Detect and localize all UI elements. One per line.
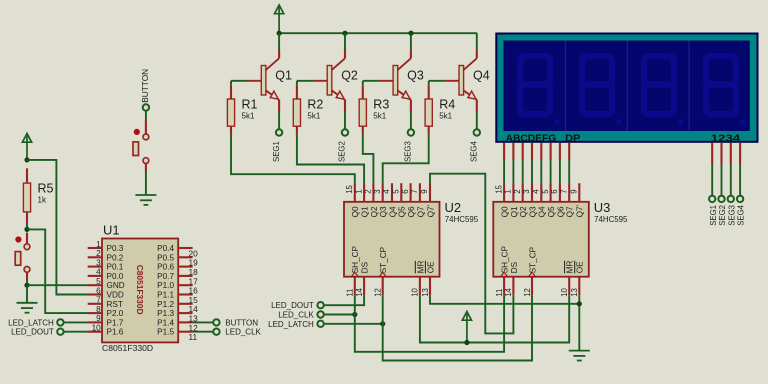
U1 pin 15 (P1.1) [178,293,192,295]
wire display to U3 [550,160,552,183]
svg-text:Q7': Q7' [576,204,585,217]
IC U1 C8051F330D body [102,239,178,343]
junction rail/Q3 [408,31,413,36]
svg-text:LED_CLK: LED_CLK [278,311,314,320]
svg-text:5k1: 5k1 [439,112,452,121]
svg-text:C8051F330D: C8051F330D [135,265,145,315]
svg-text:GND: GND [107,281,125,290]
resistor R2 [293,99,300,126]
svg-text:5k1: 5k1 [242,112,255,121]
display digit 2 decimal point [616,120,621,125]
terminal SEG2 (transistor) [342,129,348,135]
svg-text:10: 10 [411,287,420,296]
terminal SEG4 (display) [737,196,743,202]
U1 pin 1 (P0.3) [88,247,102,249]
junction LED_CLK [352,312,357,317]
U1 pin 12 (P1.4) [178,321,192,323]
display digit pin 2 [720,143,722,164]
terminal SEG3 (transistor) [408,129,414,135]
svg-text:Q1: Q1 [275,69,292,83]
svg-text:Q2: Q2 [370,206,379,217]
wire display to U3 [503,160,505,183]
U2 pin 12 (ST_CP) [382,277,384,296]
svg-text:6: 6 [550,189,559,193]
svg-text:U1: U1 [103,223,120,238]
resistor R5 pin stubs [26,168,28,183]
svg-text:9: 9 [570,189,579,193]
svg-text:P1.0: P1.0 [157,281,174,290]
wire LED_CLK to U3.SH_CP [355,295,504,352]
wire R4 to U2.Q3 [383,135,429,184]
svg-text:P0.5: P0.5 [157,253,174,262]
svg-text:DS: DS [361,261,370,273]
svg-text:P1.5: P1.5 [157,328,174,337]
U1 pin 4 (P0.0) [88,275,102,277]
IC U2 74HC595 body [344,202,440,277]
svg-text:5: 5 [541,189,550,194]
U1 pin 13 (P1.3) [178,312,192,314]
U1 pin 18 (P0.6) [178,266,192,268]
display segment pin A [503,143,505,160]
svg-text:SEG2: SEG2 [338,141,347,162]
svg-text:P1.7: P1.7 [107,318,124,327]
wire U2.Q7' to U3.DS [430,174,513,334]
svg-text:12: 12 [374,288,383,297]
wire Q3 emitter to SEG3 [410,112,412,130]
wire [193,321,214,323]
svg-text:SH_CP: SH_CP [351,245,360,273]
display digit 3 decimal point [678,120,683,125]
svg-text:Q2: Q2 [519,206,528,217]
wire R3 to U2.Q2 [363,135,374,184]
svg-text:P1.3: P1.3 [157,309,174,318]
U2 pin 6 (Q6) [410,183,412,202]
U1 pin 6 (VDD) [88,293,102,295]
IC U3 74HC595 body [493,202,589,277]
wire [296,81,298,86]
U3 pin 15 (Q0) [503,183,505,202]
wire LED_LATCH [323,323,382,325]
svg-text:4: 4 [532,189,541,194]
display segment pin E [540,143,542,160]
wire LED_LATCH to U3.ST_CP [383,295,532,360]
svg-text:10: 10 [92,323,102,333]
display digit 1 decimal point [554,120,559,125]
svg-text:DP: DP [565,133,581,144]
U1 pin 10 (P1.6) [88,331,102,333]
terminal SEG2 (display) [718,196,724,202]
svg-text:15: 15 [494,184,503,193]
svg-text:14: 14 [504,287,513,296]
U3 pin 1 (Q1) [512,183,514,202]
push button (left, to P2.0) [15,236,21,242]
terminal LED_LATCH (mid) [317,321,323,327]
svg-text:3: 3 [373,189,382,193]
svg-text:Q7': Q7' [426,204,435,217]
svg-text:P0.3: P0.3 [107,244,124,253]
ground (top button) [135,195,156,205]
terminal LED_CLK (right of U1) [213,329,219,335]
U2 pin 15 (Q0) [354,183,356,202]
svg-text:2: 2 [364,189,373,193]
display digit 2 segments [582,56,612,114]
svg-text:Q5: Q5 [398,206,407,217]
svg-text:LED_DOUT: LED_DOUT [271,301,314,310]
wire [26,285,28,303]
wire Q4 to rail [476,33,478,50]
U3 pin 5 (Q5) [550,183,552,202]
svg-text:R2: R2 [307,98,323,112]
U2 pin 3 (Q3) [382,183,384,202]
terminal SEG1 (transistor) [276,129,282,135]
display digit pin 4 [739,143,741,164]
terminal SEG4 (transistor) [474,129,480,135]
wire [63,321,88,323]
wire [428,81,430,86]
power symbol VCC (rail) [275,5,284,33]
U2 pin 9 (Q7') [429,183,431,202]
svg-text:15: 15 [345,184,354,193]
svg-text:Q7: Q7 [416,206,425,217]
ground (left button) [17,303,38,313]
svg-text:3: 3 [522,189,531,193]
svg-text:OE: OE [576,261,585,273]
svg-text:P0.0: P0.0 [107,272,124,281]
svg-text:Q3: Q3 [379,206,388,217]
svg-text:P0.4: P0.4 [157,244,174,253]
U3 pin 10 (MR) [568,277,570,296]
wire R1 to U2.Q0 [231,135,355,184]
push button (BUTTON net) [134,129,140,135]
U1 pin 16 (P1.0) [178,284,192,286]
svg-text:SEG3: SEG3 [404,141,413,162]
U1 pin 17 (P0.7) [178,275,192,277]
transistor Q4 [459,66,464,96]
svg-text:P1.2: P1.2 [157,300,174,309]
terminal LED_CLK (mid) [317,311,323,317]
U3 pin 7 (Q7) [568,183,570,202]
svg-text:Q4: Q4 [538,206,547,217]
svg-text:11: 11 [189,332,198,342]
display digit 4 decimal point [740,120,745,125]
terminal SEG1 (display) [709,196,715,202]
svg-text:P1.6: P1.6 [107,328,124,337]
wire [362,81,364,86]
junction rail/Q2 [342,31,347,36]
wire node to P2.0 [27,229,88,313]
wire display to U3 [568,160,570,183]
svg-text:11: 11 [495,289,504,297]
wire digit 4 to SEG4 [739,164,741,196]
svg-text:Q6: Q6 [407,206,416,217]
U1 pin 5 (GND) [88,284,102,286]
svg-text:1k: 1k [38,196,47,205]
U2 pin 13 (OE) [429,277,431,296]
svg-text:Q1: Q1 [361,206,370,217]
svg-text:MR: MR [416,260,425,273]
U1 pin 2 (P0.2) [88,256,102,258]
wire [230,81,232,86]
terminal BUTTON (right of U1) [213,319,219,325]
svg-text:C8051F330D: C8051F330D [102,343,153,353]
svg-text:LED_CLK: LED_CLK [225,328,261,337]
U1 pin 19 (P0.5) [178,256,192,258]
wire [26,168,28,170]
display digit divider [688,41,690,132]
wire to U2.SH_CP [354,295,356,314]
wire [63,331,88,333]
wire R4 to Q4 base [429,80,445,82]
svg-text:Q2: Q2 [341,69,358,83]
svg-text:BUTTON: BUTTON [225,318,258,327]
svg-text:P0.7: P0.7 [157,272,174,281]
U2 pin 4 (Q4) [391,183,393,202]
display segment pin B [512,143,514,160]
svg-text:R4: R4 [439,98,455,112]
display digit 4 segments [706,56,736,114]
svg-text:P1.4: P1.4 [157,318,174,327]
U2 pin 2 (Q2) [372,183,374,202]
U3 pin 3 (Q3) [531,183,533,202]
terminal LED_DOUT (mid) [317,302,323,308]
resistor R2 pin stubs [296,85,298,99]
U3 pin 6 (Q6) [559,183,561,202]
U3 pin 2 (Q2) [522,183,524,202]
svg-text:BUTTON: BUTTON [140,69,150,103]
svg-text:RST: RST [107,300,123,309]
wire Q1 emitter to SEG1 [278,112,280,130]
wire R3 to Q3 base [363,80,379,82]
svg-text:5k1: 5k1 [373,112,386,121]
U1 pin 9 (P1.7) [88,321,102,323]
svg-text:1234: 1234 [711,133,741,144]
resistor R4 [425,99,432,126]
svg-text:SEG4: SEG4 [470,141,479,162]
U3 pin 9 (Q7') [578,183,580,202]
U2 pin 10 (MR) [419,277,421,296]
svg-text:Q4: Q4 [388,206,397,217]
transistor Q2 [327,66,332,96]
svg-text:11: 11 [346,289,355,297]
display digit 3 segments [644,56,674,114]
wire power rail [279,32,477,34]
display segment pin D [531,143,533,160]
svg-text:OE: OE [426,261,435,273]
resistor R4 pin stubs [428,85,430,99]
wire [26,223,28,229]
junction LED_LATCH [380,321,385,326]
svg-text:P0.6: P0.6 [157,263,174,272]
wire [145,172,147,195]
svg-text:R5: R5 [38,182,54,196]
svg-text:P0.2: P0.2 [107,253,124,262]
svg-text:LED_DOUT: LED_DOUT [11,328,54,337]
U3 pin 12 (ST_CP) [531,277,533,296]
wire [145,110,147,120]
resistor R3 [359,99,366,126]
U2 pin 11 (SH_CP) [354,277,356,296]
svg-text:SEG2: SEG2 [718,205,727,226]
wire display to U3 [540,160,542,183]
display inner panel [504,41,750,132]
svg-text:SEG1: SEG1 [709,205,718,226]
resistor R3 pin stubs [362,85,364,99]
svg-text:SH_CP: SH_CP [501,245,510,273]
terminal LED_DOUT (left) [57,329,63,335]
svg-text:P1.1: P1.1 [157,291,174,300]
display segment pin DP [568,143,570,160]
wire Q4 emitter to SEG4 [476,112,478,130]
display digit divider [564,41,566,132]
svg-text:74HC595: 74HC595 [445,215,479,224]
svg-text:13: 13 [570,288,579,297]
svg-text:Q6: Q6 [556,206,565,217]
transistor Q3 [393,66,398,96]
svg-text:P0.1: P0.1 [107,263,124,272]
svg-text:ABCDEFG: ABCDEFG [506,133,557,144]
svg-text:Q5: Q5 [547,206,556,217]
U1 pin 7 (RST) [88,303,102,305]
svg-text:P2.0: P2.0 [107,309,124,318]
wire LED_DOUT to U2.DS [323,295,364,305]
junction MR/VCC [464,340,469,345]
wire digit 3 to SEG3 [730,164,732,196]
svg-text:Q1: Q1 [510,206,519,217]
resistor R5 [23,183,30,212]
svg-text:7: 7 [410,189,419,193]
svg-text:ST_CP: ST_CP [528,246,537,273]
U2 pin 1 (Q1) [363,183,365,202]
svg-text:5: 5 [392,189,401,194]
junction OE/ground [577,301,582,306]
svg-text:Q3: Q3 [407,69,424,83]
svg-text:U2: U2 [445,200,462,215]
wire [26,280,28,285]
U1 pin 8 (P2.0) [88,312,102,314]
U2 pin 7 (Q7) [419,183,421,202]
svg-text:12: 12 [523,288,532,297]
svg-text:10: 10 [560,287,569,296]
wire R1 to Q1 base [231,80,247,82]
svg-text:Q4: Q4 [473,69,490,83]
svg-text:U3: U3 [594,200,611,215]
power symbol VCC (MR) [462,312,471,343]
U2 pin 5 (Q5) [400,183,402,202]
svg-text:13: 13 [421,288,430,297]
display digit pin 3 [730,143,732,164]
wire digit 2 to SEG2 [721,164,723,196]
svg-text:LED_LATCH: LED_LATCH [268,320,314,329]
junction button/GND [24,283,29,288]
wire [193,331,214,333]
svg-text:ST_CP: ST_CP [379,246,388,273]
svg-text:14: 14 [355,287,364,296]
display digit divider [626,41,628,132]
U1 pin 20 (P0.4) [178,247,192,249]
svg-text:2: 2 [513,189,522,193]
wire OE node to ground [578,295,580,350]
wire R2 to Q2 base [297,80,313,82]
svg-text:R1: R1 [242,98,258,112]
wire Q1 to rail [278,33,280,50]
wire digit 1 to SEG1 [711,164,713,196]
svg-text:7: 7 [559,189,568,193]
terminal LED_LATCH (left) [57,319,63,325]
resistor R1 pin stubs [230,85,232,99]
display segment pin C [522,143,524,160]
U1 pin 11 (P1.5) [178,331,192,333]
wire VCC to U1 VDD pin6 [27,160,88,295]
transistor Q1 [261,66,266,96]
terminal SEG3 (display) [728,196,734,202]
svg-text:74HC595: 74HC595 [594,215,628,224]
wire R2 to U2.Q1 [297,135,364,184]
wire U2.OE to U3.OE/ground [430,295,579,304]
svg-text:SEG4: SEG4 [737,204,746,225]
svg-text:DS: DS [510,261,519,273]
wire display to U3 [522,160,524,183]
wire Q3 to rail [410,33,412,50]
wire GND to U1 pin5 [27,284,88,286]
7-segment display frame [496,34,757,142]
svg-text:LED_LATCH: LED_LATCH [8,318,54,327]
svg-text:SEG1: SEG1 [272,141,281,162]
wire U2.MR to U3.MR / VCC [420,295,569,342]
U1 pin 14 (P1.2) [178,303,192,305]
svg-text:R3: R3 [373,98,389,112]
svg-text:Q3: Q3 [528,206,537,217]
svg-text:6: 6 [401,189,410,193]
svg-text:5k1: 5k1 [307,112,320,121]
svg-text:9: 9 [420,189,429,193]
U2 pin 14 (DS) [363,277,365,296]
wire display to U3 [531,160,533,183]
wire Q2 to rail [344,33,346,50]
svg-text:1: 1 [504,189,513,193]
wire LED_CLK [323,314,355,316]
wire display to U3 [559,160,561,183]
display segment pin G [559,143,561,160]
svg-text:Q7: Q7 [566,206,575,217]
junction rail/Q1 [277,31,282,36]
wire to U2.ST_CP [382,295,384,324]
resistor R1 [227,99,234,126]
svg-text:SEG3: SEG3 [727,205,736,226]
svg-text:Q0: Q0 [501,206,510,217]
wire display to U3 [512,160,514,183]
svg-text:MR: MR [566,260,575,273]
power symbol VCC (left) [22,134,31,160]
svg-text:4: 4 [382,189,391,194]
display digit pin 1 [711,143,713,164]
terminal BUTTON (top) [143,104,149,110]
U3 pin 11 (SH_CP) [503,277,505,296]
svg-text:VDD: VDD [107,291,124,300]
display segment pin F [550,143,552,160]
junction VCC/R5 [24,157,29,162]
U1 pin 3 (P0.1) [88,266,102,268]
svg-text:Q0: Q0 [351,206,360,217]
display digit 1 segments [520,56,550,114]
ground (OE) [569,351,590,361]
U3 pin 4 (Q4) [540,183,542,202]
svg-text:1: 1 [354,189,363,193]
U3 pin 14 (DS) [512,277,514,296]
U3 pin 13 (OE) [578,277,580,296]
junction R5/button node [24,227,29,232]
wire Q2 emitter to SEG2 [344,112,346,130]
